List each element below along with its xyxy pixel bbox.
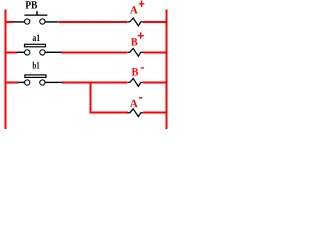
limit switch b1 contact circle 2 [40, 80, 45, 85]
solenoid B- zigzag rung3 [128, 79, 143, 87]
limit switch b1 actuator box [25, 75, 46, 78]
limit switch a1 actuator box [25, 44, 46, 47]
limit switch b1 contact circle 1 [25, 80, 30, 85]
right power rail [166, 10, 168, 129]
pushbutton PB actuator stem [36, 11, 37, 14]
svg-text:B: B [131, 37, 138, 49]
pushbutton PB contact circle 1 [25, 19, 30, 24]
solenoid A+ zigzag rung1 [128, 18, 143, 26]
svg-text:a1: a1 [32, 33, 40, 44]
label minus rung4 [139, 97, 142, 98]
wire rung2 mid red [61, 51, 128, 53]
wire rung2 right red [143, 51, 168, 53]
solenoid A- zigzag rung4 [128, 109, 143, 117]
wire rung3 black lead left [18, 82, 25, 83]
wire rung1 mid red [58, 21, 127, 23]
svg-text:PB: PB [25, 0, 38, 12]
wire rung3 left red [4, 81, 18, 83]
wire rung4 left red [90, 112, 128, 114]
label plus rung1 [139, 3, 145, 4]
limit switch a1 contact circle 1 [25, 50, 30, 55]
svg-text:b1: b1 [32, 61, 39, 72]
svg-text:A: A [130, 5, 138, 17]
pushbutton PB actuator bar [24, 15, 47, 16]
wire rung1 black lead left [13, 21, 25, 22]
left power rail [4, 10, 6, 129]
wire rung2 black lead right [45, 52, 61, 53]
branch wire rung3 to rung4 vertical [90, 81, 92, 113]
wire rung3 black lead right [45, 82, 62, 83]
wire rung3 right red [143, 81, 168, 83]
label minus rung3 [141, 67, 144, 68]
wire rung1 black lead right [45, 21, 58, 22]
wire rung1 left red [4, 21, 13, 23]
solenoid B+ zigzag rung2 [128, 48, 143, 56]
wire rung4 right red [143, 112, 168, 114]
svg-text:A: A [130, 98, 138, 110]
wire rung2 left red [4, 51, 17, 53]
wire rung3 mid red [62, 81, 128, 83]
svg-text:B: B [132, 67, 140, 79]
label plus rung2 [138, 35, 144, 36]
wire rung2 black lead left [17, 52, 25, 53]
pushbutton PB contact circle 2 [40, 19, 45, 24]
limit switch a1 contact circle 2 [40, 50, 45, 55]
wire rung1 right red [143, 21, 168, 23]
